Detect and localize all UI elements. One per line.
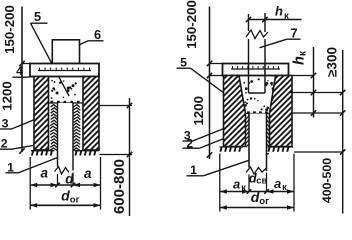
- label 3: [0, 117, 37, 131]
- backfill strip right 2: [73, 105, 80, 151]
- right socket wall: [270, 76, 293, 147]
- socket rim slab: [223, 64, 289, 76]
- svg-text:1200: 1200: [0, 81, 15, 111]
- concrete fill 5 (dotted): [51, 80, 77, 99]
- svg-text:600-800: 600-800: [111, 159, 128, 214]
- label 1: [187, 154, 270, 178]
- svg-text:4: 4: [16, 64, 23, 78]
- label 4: [13, 64, 35, 78]
- socket rim slab 4: [30, 64, 99, 77]
- ext line hole bottom (right): [100, 154, 133, 156]
- right fig: vertical dimension line 150-200 / 1200: [207, 7, 223, 160]
- label 6: [65, 27, 104, 52]
- extension verticals: [30, 157, 100, 210]
- pole bottom line: [249, 92, 266, 94]
- pole shaft 1: [58, 103, 74, 171]
- ground hatch right: [75, 151, 99, 156]
- svg-text:d: d: [61, 188, 70, 204]
- svg-text:5: 5: [180, 56, 187, 70]
- svg-text:h: h: [275, 4, 283, 19]
- cavity floor line: [49, 101, 84, 103]
- hole extension lines: [249, 173, 267, 192]
- svg-text:7: 7: [290, 26, 297, 41]
- dim line 600-800: [127, 98, 132, 216]
- dim row d_og: [30, 203, 100, 207]
- ext line cavity floor: [293, 112, 343, 114]
- svg-text:ог: ог: [259, 196, 269, 207]
- svg-text:2: 2: [1, 137, 8, 151]
- svg-text:6: 6: [94, 27, 101, 42]
- ext line rim bottom (right side): [289, 75, 314, 77]
- svg-text:a: a: [41, 166, 49, 181]
- backfill strip left 2: [50, 105, 57, 151]
- svg-text:≥300: ≥300: [324, 47, 339, 77]
- ext line pole bottom: [289, 92, 343, 94]
- dim line 300 / 400-500 vertical: [340, 50, 345, 214]
- label 7: [260, 26, 301, 48]
- dim h_k top: [246, 17, 302, 22]
- svg-text:ог: ог: [70, 194, 80, 205]
- feather marks on hole edges: [246, 116, 269, 148]
- pole extension lines to dim row: [58, 173, 74, 186]
- svg-text:5: 5: [34, 9, 41, 24]
- ext line cavity floor (right): [100, 105, 133, 107]
- label 1: [6, 152, 74, 175]
- label 2: [0, 137, 36, 151]
- pole break symbol top: [246, 30, 268, 39]
- right socket wall 3: [83, 77, 99, 151]
- svg-text:к: к: [241, 182, 246, 192]
- left fig: vertical dimension line 150-200 / 1200: [19, 7, 31, 154]
- label 2: [183, 136, 224, 150]
- extension verticals: [220, 154, 294, 212]
- label 3: [182, 127, 229, 143]
- column stub 6: [52, 40, 79, 64]
- svg-text:св: св: [256, 176, 267, 186]
- svg-text:1200: 1200: [191, 96, 206, 126]
- dim row a-d-a: [30, 183, 100, 188]
- svg-text:a: a: [274, 176, 281, 191]
- svg-text:к: к: [282, 182, 287, 192]
- svg-text:1: 1: [190, 163, 197, 177]
- svg-text:к: к: [284, 11, 289, 22]
- hole break symbol: [246, 167, 267, 174]
- svg-text:150-200: 150-200: [2, 5, 17, 54]
- pole 7 upper part: [249, 13, 266, 93]
- svg-text:a: a: [84, 166, 92, 181]
- label 5: [177, 56, 237, 103]
- rim reinforcement line: [231, 66, 280, 69]
- ground hatch left: [220, 147, 244, 152]
- svg-text:400-500: 400-500: [320, 158, 334, 203]
- dim line h_k vertical: [311, 47, 316, 118]
- ground hatch right: [268, 147, 294, 152]
- pole break symbol: [55, 167, 70, 175]
- ext line hole bottom: [294, 151, 343, 153]
- svg-text:150-200: 150-200: [184, 0, 199, 49]
- left socket wall 3: [34, 77, 49, 151]
- pole passing through rim: [249, 64, 266, 76]
- dim row d_og: [220, 205, 294, 209]
- svg-text:a: a: [233, 177, 240, 192]
- label 5: [31, 9, 70, 96]
- cavity floor line: [246, 111, 270, 113]
- hole shaft below socket: [249, 114, 267, 172]
- svg-text:d: d: [65, 172, 74, 187]
- ground hatch left: [31, 151, 55, 156]
- rim reinforcement line: [38, 68, 91, 71]
- left socket wall: [224, 76, 246, 147]
- concrete fill (dotted): [243, 78, 274, 111]
- dim text h_k vertical: [292, 50, 309, 65]
- dim row a_k d_sv a_k: [220, 189, 294, 194]
